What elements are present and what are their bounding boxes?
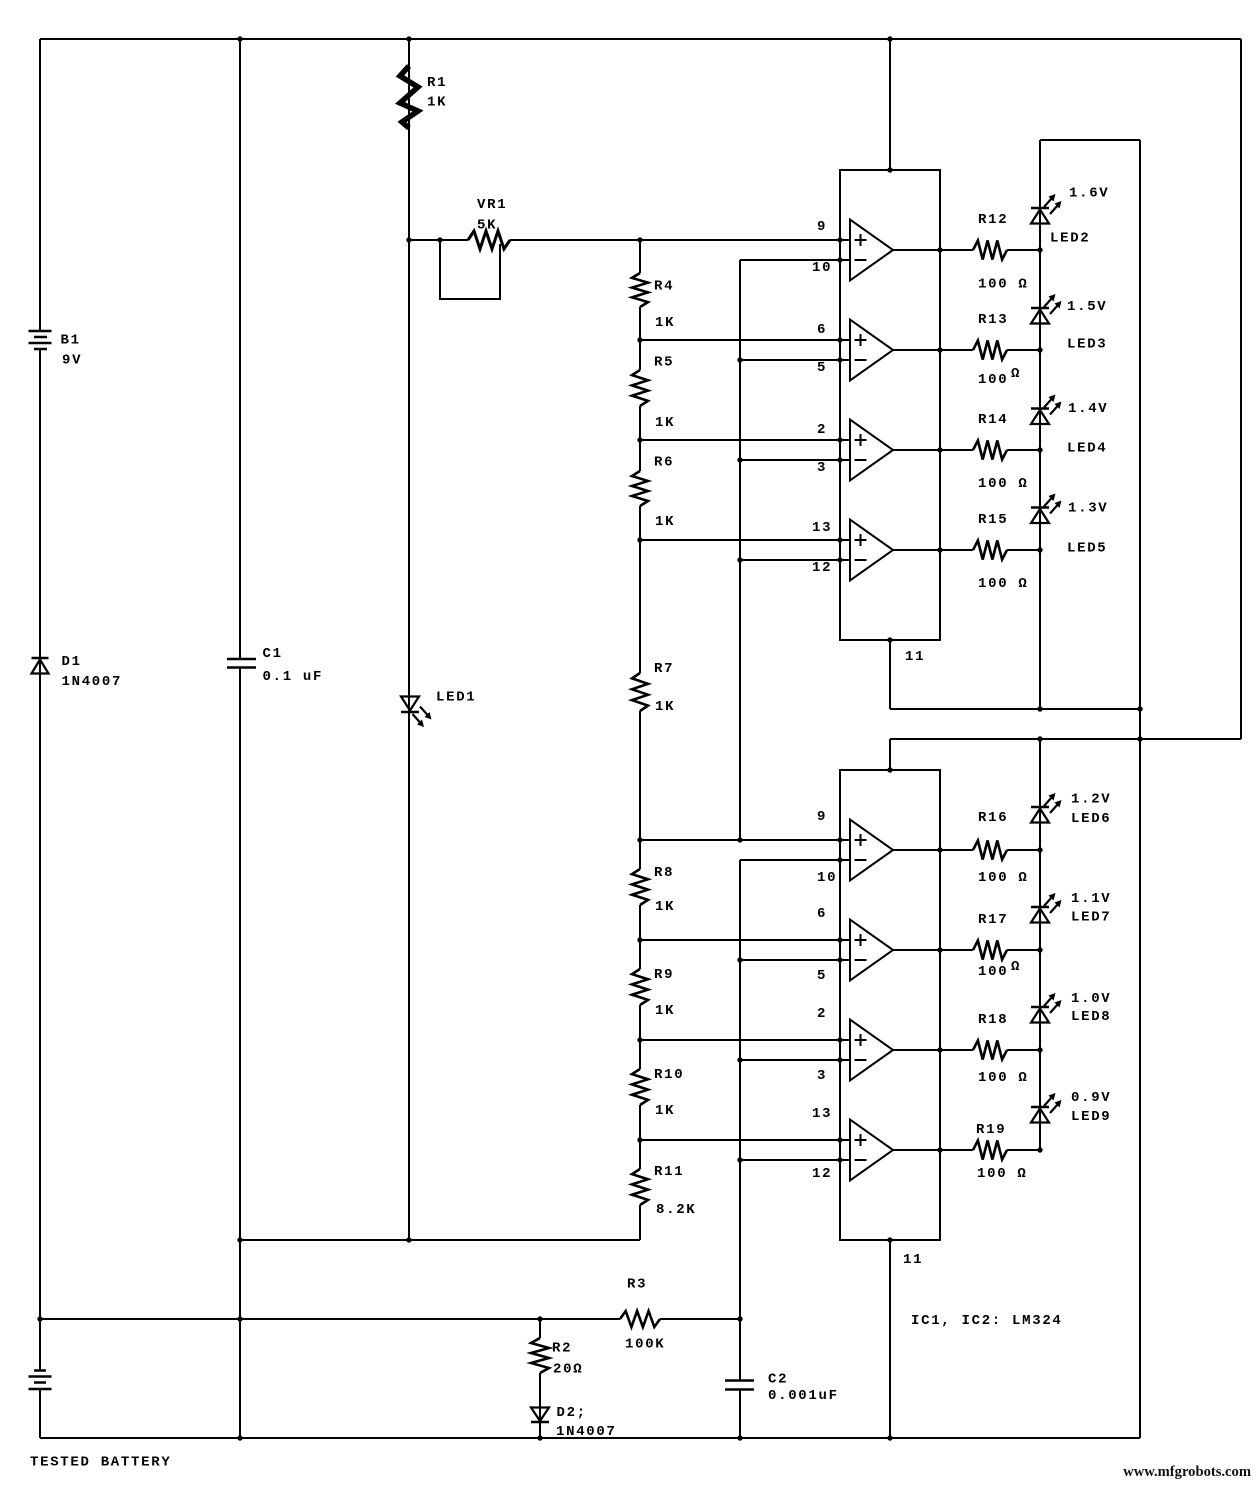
wire op5 + input: [640, 839, 850, 841]
wire ladder R10-R11: [639, 1105, 641, 1169]
svg-text:R14: R14: [978, 412, 1008, 428]
junction node (1040,450): [1037, 447, 1042, 452]
junction node (840,340): [837, 337, 842, 342]
svg-text:R1: R1: [427, 75, 447, 91]
svg-text:12: 12: [812, 560, 832, 576]
junction node (740,1060): [737, 1057, 742, 1062]
svg-text:D2;: D2;: [557, 1405, 587, 1421]
junction node (840,940): [837, 937, 842, 942]
svg-text:0.1 uF: 0.1 uF: [263, 669, 324, 685]
svg-text:LED7: LED7: [1071, 910, 1111, 926]
junction node (840,440): [837, 437, 842, 442]
svg-text:11: 11: [905, 649, 925, 665]
wire op7 - input: [740, 1059, 850, 1061]
svg-text:R5: R5: [654, 355, 674, 371]
junction node (40,1319): [37, 1316, 42, 1321]
potentiometer VR1: [468, 231, 510, 249]
junction node (840,360): [837, 357, 842, 362]
wire row y739 (V+ to IC2): [890, 738, 1241, 740]
op-amp U2D: [850, 1120, 893, 1181]
IC1 package outline: [840, 170, 940, 640]
svg-text:100 Ω: 100 Ω: [978, 870, 1029, 886]
svg-text:LED6: LED6: [1071, 811, 1111, 827]
svg-text:R11: R11: [654, 1164, 684, 1180]
junction node (409,1240): [406, 1237, 411, 1242]
junction node (940,250): [937, 247, 942, 252]
svg-text:R16: R16: [978, 810, 1008, 826]
svg-text:R2: R2: [552, 1341, 572, 1357]
junction node (1040,250): [1037, 247, 1042, 252]
wire VR1 row / op1 + input: [409, 239, 468, 241]
wire op6 + input: [640, 939, 850, 941]
svg-text:1K: 1K: [655, 415, 675, 431]
junction node (409,240): [406, 237, 411, 242]
wire op6 output: [893, 949, 973, 951]
svg-text:1K: 1K: [655, 1103, 675, 1119]
svg-text:B1: B1: [61, 333, 81, 349]
junction node (840,560): [837, 557, 842, 562]
svg-text:R15: R15: [978, 512, 1008, 528]
op-amp U2B: [850, 920, 893, 981]
svg-text:LED9: LED9: [1071, 1109, 1111, 1125]
LED LED7: [1031, 906, 1049, 909]
svg-text:LED2: LED2: [1050, 231, 1090, 247]
junction node (890,1438): [887, 1435, 892, 1440]
svg-text:TESTED BATTERY: TESTED BATTERY: [30, 1455, 171, 1471]
svg-text:1K: 1K: [655, 699, 675, 715]
wire ladder R11 bottom: [639, 1205, 641, 1240]
junction node (840,860): [837, 857, 842, 862]
junction node (240,1240): [237, 1237, 242, 1242]
svg-text:LED1: LED1: [436, 690, 476, 706]
wire row y709 (pin11 to LED box): [890, 708, 1140, 710]
junction node (540,1319): [537, 1316, 542, 1321]
svg-text:100K: 100K: [625, 1337, 665, 1353]
svg-text:R7: R7: [654, 661, 674, 677]
LED LED8: [1031, 1006, 1049, 1009]
resistor R10: [632, 1069, 648, 1105]
junction node (1140,739): [1137, 736, 1142, 741]
svg-text:9V: 9V: [62, 353, 82, 369]
svg-text:Ω: Ω: [1011, 366, 1021, 382]
wire tested battery + row y1319 left: [40, 1318, 620, 1320]
junction node (440,240): [437, 237, 442, 242]
junction node (740,1319): [737, 1316, 742, 1321]
svg-text:LED8: LED8: [1071, 1009, 1111, 1025]
op-amp U1A: [850, 220, 893, 281]
junction node (940,1050): [937, 1047, 942, 1052]
junction node (890,1240): [887, 1237, 892, 1242]
wire R1/LED1 branch vertical: [408, 39, 410, 1240]
svg-text:3: 3: [817, 1068, 827, 1084]
wire IC2 minus chain vertical (to C2): [739, 860, 741, 1380]
LED LED9: [1031, 1106, 1049, 1109]
wire LED box1 top edge: [1040, 139, 1140, 141]
svg-text:Ω: Ω: [1011, 959, 1021, 975]
junction node (940,850): [937, 847, 942, 852]
svg-text:R8: R8: [654, 865, 674, 881]
battery tested-battery symbol: [29, 1371, 52, 1390]
wire ladder R5-R6: [639, 406, 641, 471]
svg-text:R4: R4: [654, 279, 674, 295]
svg-text:VR1: VR1: [477, 197, 507, 213]
wire IC2 V+ drop: [889, 739, 891, 770]
wire R3 to minus chain: [660, 1318, 740, 1320]
resistor R16: [973, 841, 1007, 860]
svg-text:1.4V: 1.4V: [1068, 401, 1108, 417]
svg-text:2: 2: [817, 422, 827, 438]
svg-text:13: 13: [812, 520, 832, 536]
junction node (1040,709): [1037, 706, 1042, 711]
wire op8 + input: [640, 1139, 850, 1141]
wire VR1 wiper loop: [440, 240, 500, 299]
junction node (740,560): [737, 557, 742, 562]
junction node (640,440): [637, 437, 642, 442]
junction node (840,260): [837, 257, 842, 262]
resistor R7: [632, 673, 648, 711]
svg-text:1K: 1K: [427, 95, 447, 111]
junction node (1040,1150): [1037, 1147, 1042, 1152]
svg-text:5: 5: [817, 968, 827, 984]
svg-text:9: 9: [817, 809, 827, 825]
svg-text:R6: R6: [654, 455, 674, 471]
wire R14 to LED4: [1007, 449, 1040, 451]
junction node (640,340): [637, 337, 642, 342]
wire left rail lower (battery to bottom rail): [39, 1390, 41, 1439]
wire IC2 pin 11 to bottom rail: [889, 1240, 891, 1438]
resistor R4: [632, 273, 648, 307]
wire bottom rail: [40, 1437, 1140, 1439]
wire op3 + input: [640, 439, 850, 441]
svg-text:100: 100: [978, 372, 1008, 388]
svg-text:1.0V: 1.0V: [1071, 991, 1111, 1007]
resistor R6: [632, 471, 648, 506]
svg-text:0.9V: 0.9V: [1071, 1090, 1111, 1106]
wire op7 output: [893, 1049, 973, 1051]
svg-text:1K: 1K: [655, 899, 675, 915]
junction node (640,240): [637, 237, 642, 242]
svg-text:10: 10: [812, 260, 832, 276]
wire second rail upper (to C1): [239, 39, 241, 659]
wire LED box right edge vertical: [1139, 140, 1141, 1438]
wire op2 - input: [740, 359, 850, 361]
wire left rail upper (to B1): [39, 39, 41, 331]
junction node (840,460): [837, 457, 842, 462]
svg-text:www.mfgrobots.com: www.mfgrobots.com: [1123, 1464, 1251, 1480]
svg-text:R17: R17: [978, 912, 1008, 928]
wire left rail middle (B1 to tested battery): [39, 349, 41, 1371]
svg-text:100 Ω: 100 Ω: [977, 1166, 1028, 1182]
junction node (1040,739): [1037, 736, 1042, 741]
junction node (940,950): [937, 947, 942, 952]
wire ladder R7-R8: [639, 711, 641, 869]
junction node (240,1319): [237, 1316, 242, 1321]
svg-text:R9: R9: [654, 967, 674, 983]
junction node (409,39): [406, 36, 411, 41]
LED LED3: [1031, 307, 1049, 310]
wire R19 to LED9: [1007, 1149, 1040, 1151]
svg-text:1N4007: 1N4007: [62, 674, 123, 690]
svg-text:100 Ω: 100 Ω: [978, 277, 1029, 293]
diode D1: [32, 657, 49, 660]
junction node (540,1438): [537, 1435, 542, 1440]
svg-text:LED4: LED4: [1067, 441, 1107, 457]
svg-text:R13: R13: [978, 312, 1008, 328]
resistor R15: [973, 541, 1007, 560]
wire op5 - input: [740, 859, 850, 861]
svg-text:20Ω: 20Ω: [553, 1362, 583, 1378]
junction node (640,940): [637, 937, 642, 942]
wire op7 + input: [640, 1039, 850, 1041]
wire op8 - input: [740, 1159, 850, 1161]
resistor R17: [973, 941, 1007, 960]
junction node (1040,850): [1037, 847, 1042, 852]
junction node (840,1140): [837, 1137, 842, 1142]
junction node (890,640): [887, 637, 892, 642]
svg-text:R18: R18: [978, 1012, 1008, 1028]
svg-text:100 Ω: 100 Ω: [978, 576, 1029, 592]
LED LED6: [1031, 806, 1049, 809]
wire R17 to LED7: [1007, 949, 1040, 951]
svg-text:IC1, IC2: LM324: IC1, IC2: LM324: [911, 1313, 1063, 1329]
resistor R14: [973, 441, 1007, 460]
wire ladder R4-R5: [639, 307, 641, 370]
junction node (890,770): [887, 767, 892, 772]
svg-text:6: 6: [817, 322, 827, 338]
svg-text:R10: R10: [654, 1067, 684, 1083]
junction node (840,540): [837, 537, 842, 542]
wire top supply rail: [40, 38, 1241, 40]
junction node (840,960): [837, 957, 842, 962]
wire IC1 minus chain vertical: [739, 260, 741, 840]
LED LED2: [1031, 207, 1049, 210]
resistor R5: [632, 370, 648, 406]
wire second rail lower (C1 down): [239, 668, 241, 1438]
battery B1: [29, 331, 52, 349]
svg-text:13: 13: [812, 1106, 832, 1122]
wire op2 + input: [640, 339, 850, 341]
svg-text:LED5: LED5: [1067, 541, 1107, 557]
junction node (740,460): [737, 457, 742, 462]
junction node (240,39): [237, 36, 242, 41]
wire R18 to LED8: [1007, 1049, 1040, 1051]
junction node (1040,350): [1037, 347, 1042, 352]
svg-text:11: 11: [903, 1252, 923, 1268]
capacitor C2: [725, 1381, 754, 1390]
junction node (940,450): [937, 447, 942, 452]
svg-text:1.6V: 1.6V: [1069, 186, 1109, 202]
svg-text:9: 9: [817, 219, 827, 235]
svg-text:D1: D1: [62, 654, 82, 670]
junction node (240,1438): [237, 1435, 242, 1440]
svg-text:6: 6: [817, 906, 827, 922]
svg-text:R19: R19: [976, 1122, 1006, 1138]
junction node (940,1150): [937, 1147, 942, 1152]
wire zero volt row y1240: [240, 1239, 640, 1241]
svg-text:8.2K: 8.2K: [656, 1202, 696, 1218]
wire R16 to LED6: [1007, 849, 1040, 851]
svg-text:5K: 5K: [477, 218, 497, 234]
resistor R9: [632, 969, 648, 1005]
junction node (640,1140): [637, 1137, 642, 1142]
wire ladder R9-R10: [639, 1005, 641, 1069]
junction node (890,39): [887, 36, 892, 41]
junction node (940,350): [937, 347, 942, 352]
wire C2 to bottom rail: [739, 1390, 741, 1439]
wire op5 output: [893, 849, 973, 851]
wire right supply rail: [1240, 39, 1242, 739]
LED LED4: [1031, 407, 1049, 410]
wire op3 - input: [740, 459, 850, 461]
junction node (740,840): [737, 837, 742, 842]
wire IC1 V+ pin from top rail: [889, 39, 891, 170]
resistor R18: [973, 1041, 1007, 1060]
svg-text:2: 2: [817, 1006, 827, 1022]
LED LED5: [1031, 506, 1049, 509]
svg-text:C1: C1: [263, 646, 283, 662]
svg-text:C2: C2: [768, 1372, 788, 1388]
junction node (640,1040): [637, 1037, 642, 1042]
wire op8 output: [893, 1149, 973, 1151]
wire R15 to LED5: [1007, 549, 1040, 551]
svg-text:1N4007: 1N4007: [556, 1424, 617, 1440]
op-amp U2A: [850, 820, 893, 881]
svg-text:1.1V: 1.1V: [1071, 891, 1111, 907]
svg-text:100 Ω: 100 Ω: [978, 1070, 1029, 1086]
wire LED chain 2 vertical: [1039, 739, 1041, 1150]
resistor R13: [973, 341, 1007, 360]
svg-text:0.001uF: 0.001uF: [768, 1388, 839, 1404]
wire R2 to D2: [539, 1373, 541, 1438]
svg-text:5: 5: [817, 360, 827, 376]
wire ladder R8-R9: [639, 905, 641, 969]
junction node (740,960): [737, 957, 742, 962]
svg-text:R12: R12: [978, 212, 1008, 228]
junction node (840,1160): [837, 1157, 842, 1162]
wire op4 - input: [740, 559, 850, 561]
svg-text:10: 10: [817, 870, 837, 886]
svg-text:R3: R3: [627, 1277, 647, 1293]
svg-text:1.3V: 1.3V: [1068, 501, 1108, 517]
junction node (740,360): [737, 357, 742, 362]
diode D2: [531, 1408, 549, 1422]
resistor R8: [632, 869, 648, 905]
wire R12 to LED2: [1007, 249, 1040, 251]
wire R13 to LED3: [1007, 349, 1040, 351]
svg-text:100: 100: [978, 964, 1008, 980]
junction node (940,550): [937, 547, 942, 552]
wire VR1 output to op1: [510, 239, 850, 241]
junction node (1040,1050): [1037, 1047, 1042, 1052]
resistor R1: [400, 66, 418, 128]
op-amp U1D: [850, 520, 893, 581]
svg-text:1.5V: 1.5V: [1067, 299, 1107, 315]
junction node (640,840): [637, 837, 642, 842]
junction node (840,1060): [837, 1057, 842, 1062]
svg-text:1K: 1K: [655, 1003, 675, 1019]
wire op1 - input: [740, 259, 850, 261]
svg-text:LED3: LED3: [1067, 337, 1107, 353]
junction node (1140,709): [1137, 706, 1142, 711]
wire op2 output: [893, 349, 973, 351]
wire ladder segment top: [639, 240, 641, 273]
resistor R3: [620, 1311, 660, 1327]
junction node (840,840): [837, 837, 842, 842]
junction node (640,540): [637, 537, 642, 542]
wire op4 + input: [640, 539, 850, 541]
LED LED1: [401, 697, 419, 711]
wire op3 output: [893, 449, 973, 451]
op-amp U1B: [850, 320, 893, 381]
svg-text:100 Ω: 100 Ω: [978, 476, 1029, 492]
wire op1 output: [893, 249, 973, 251]
svg-text:3: 3: [817, 460, 827, 476]
junction node (1040,950): [1037, 947, 1042, 952]
junction node (1040,550): [1037, 547, 1042, 552]
wire ladder R6-R7: [639, 506, 641, 673]
junction node (740,1160): [737, 1157, 742, 1162]
resistor R19: [973, 1141, 1007, 1160]
svg-text:12: 12: [812, 1166, 832, 1182]
resistor R12: [973, 241, 1007, 260]
junction node (840,240): [837, 237, 842, 242]
svg-text:1K: 1K: [655, 514, 675, 530]
wire op6 - input: [740, 959, 850, 961]
IC2 package outline: [840, 770, 940, 1240]
wire LED chain 1 vertical: [1039, 140, 1041, 709]
op-amp U2C: [850, 1020, 893, 1081]
junction node (740,1438): [737, 1435, 742, 1440]
resistor R11: [632, 1169, 648, 1205]
svg-text:1K: 1K: [655, 315, 675, 331]
junction node (840,1040): [837, 1037, 842, 1042]
wire op4 output: [893, 549, 973, 551]
svg-text:1.2V: 1.2V: [1071, 792, 1111, 808]
op-amp U1C: [850, 420, 893, 481]
wire R2 branch top: [539, 1319, 541, 1338]
capacitor C1: [227, 659, 256, 668]
wire IC1 pin 11 down: [889, 640, 891, 709]
resistor R2: [531, 1338, 549, 1373]
junction node (890,170): [887, 167, 892, 172]
